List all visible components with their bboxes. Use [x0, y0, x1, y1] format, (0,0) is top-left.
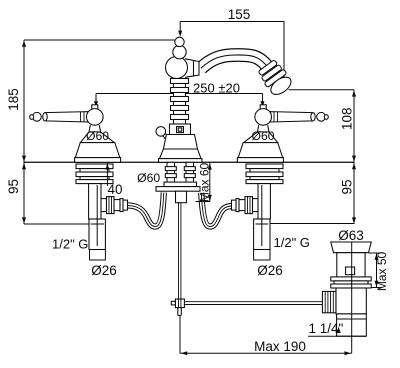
svg-text:40: 40 — [108, 182, 123, 197]
svg-text:Max 60: Max 60 — [197, 163, 211, 203]
svg-text:Max 190: Max 190 — [254, 339, 306, 354]
svg-text:Ø26: Ø26 — [257, 263, 283, 278]
svg-text:185: 185 — [6, 88, 21, 111]
svg-text:95: 95 — [340, 179, 355, 194]
svg-text:1 1/4": 1 1/4" — [309, 321, 344, 336]
svg-text:Ø63: Ø63 — [338, 228, 364, 243]
svg-text:155: 155 — [228, 7, 251, 22]
svg-text:Ø60: Ø60 — [86, 129, 109, 143]
svg-text:95: 95 — [6, 179, 21, 194]
svg-text:1/2" G: 1/2" G — [274, 235, 310, 250]
svg-text:Ø60: Ø60 — [137, 171, 160, 185]
svg-text:Ø60: Ø60 — [251, 129, 274, 143]
svg-text:Ø26: Ø26 — [91, 263, 117, 278]
svg-text:250 ±20: 250 ±20 — [193, 80, 240, 95]
svg-text:1/2" G: 1/2" G — [52, 237, 88, 252]
svg-text:Max 50: Max 50 — [375, 252, 389, 292]
svg-text:108: 108 — [340, 108, 355, 131]
